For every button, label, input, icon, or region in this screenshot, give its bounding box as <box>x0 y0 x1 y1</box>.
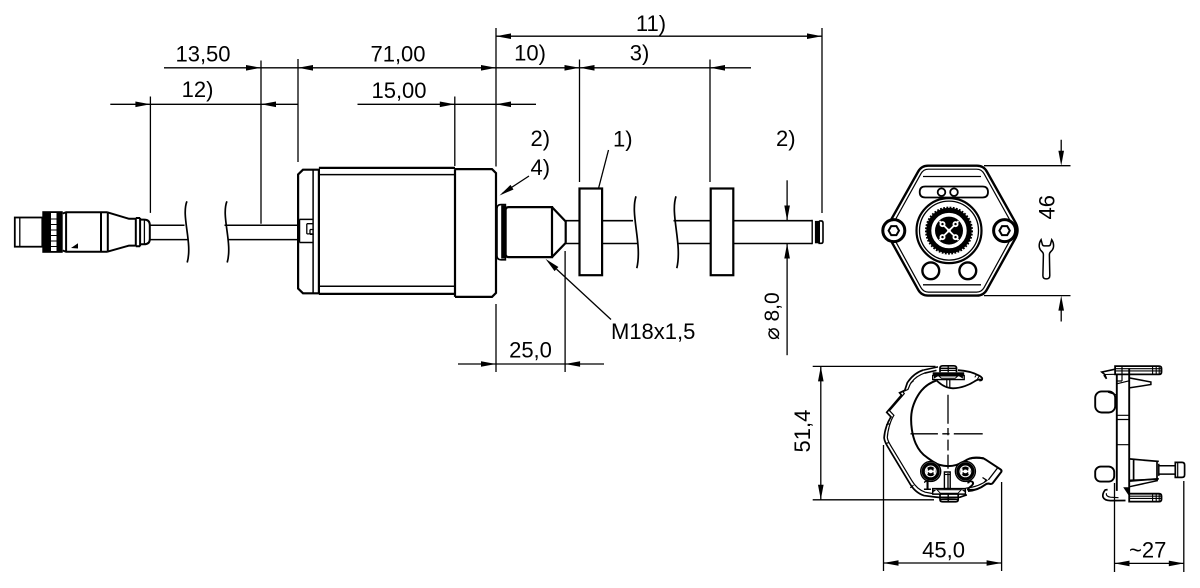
svg-text:1: 1 <box>923 477 931 494</box>
svg-text:51,4: 51,4 <box>790 410 815 453</box>
svg-text:4): 4) <box>531 155 551 180</box>
svg-text:15,00: 15,00 <box>371 78 426 103</box>
svg-text:1): 1) <box>613 127 633 152</box>
svg-text:45,0: 45,0 <box>922 538 965 563</box>
svg-text:13,50: 13,50 <box>175 42 230 67</box>
svg-text:3): 3) <box>630 41 650 66</box>
svg-text:46: 46 <box>1035 195 1060 219</box>
svg-text:10): 10) <box>514 41 546 66</box>
svg-text:71,00: 71,00 <box>370 42 425 67</box>
svg-text:2): 2) <box>531 126 551 151</box>
svg-text:11): 11) <box>636 11 666 36</box>
svg-text:2): 2) <box>776 126 796 151</box>
svg-text:~27: ~27 <box>1129 538 1166 563</box>
svg-text:2: 2 <box>967 478 975 495</box>
svg-text:⌀ 8,0: ⌀ 8,0 <box>761 292 784 340</box>
svg-text:12): 12) <box>182 77 214 102</box>
svg-text:M18x1,5: M18x1,5 <box>611 319 695 344</box>
svg-text:25,0: 25,0 <box>509 338 552 363</box>
